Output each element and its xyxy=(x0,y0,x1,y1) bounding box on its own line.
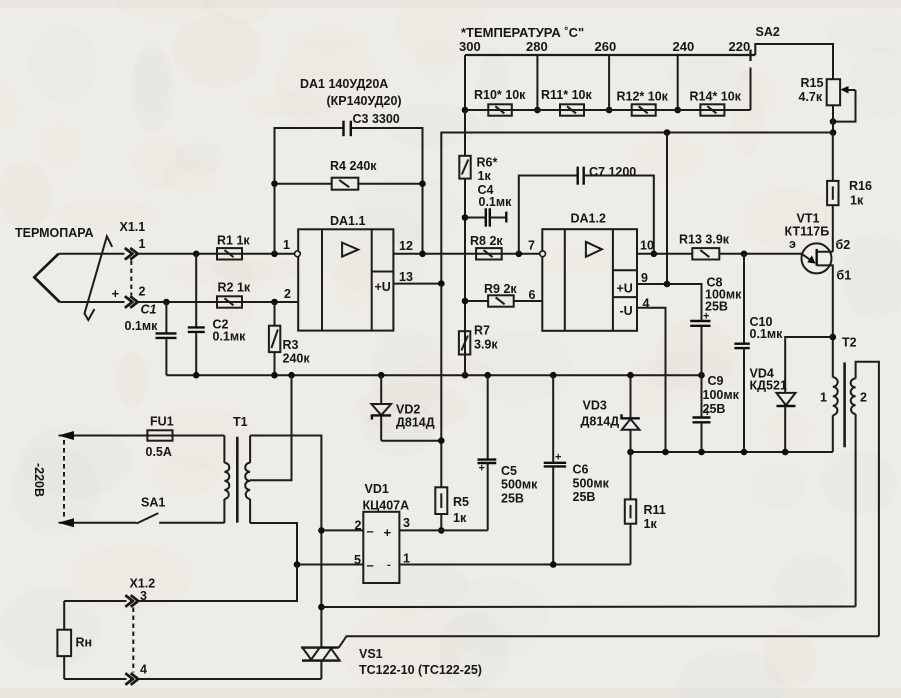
X1.1 dashed link xyxy=(130,261,132,296)
capacitor C7 xyxy=(519,176,578,254)
node bus VD2 xyxy=(378,372,385,379)
X1.1 pin1 chevrons xyxy=(125,248,133,260)
svg-text:КД521: КД521 xyxy=(750,379,787,393)
svg-text:T2: T2 xyxy=(842,336,857,350)
wire R15 bottom lead xyxy=(832,105,834,132)
svg-text:+U: +U xyxy=(375,280,391,294)
wire pin1 line to DA1.1 xyxy=(137,253,295,255)
wire VS1 gate line to T2 xyxy=(339,636,879,647)
svg-text:280: 280 xyxy=(526,39,548,54)
node -U C9 xyxy=(698,449,705,456)
tap 280 xyxy=(536,55,538,110)
node C10 top xyxy=(741,251,748,258)
svg-text:6: 6 xyxy=(529,288,536,302)
transformer T2 winding 2 xyxy=(851,379,856,415)
svg-text:4: 4 xyxy=(140,663,147,677)
DA1.2 pin7 inversion circle xyxy=(540,251,546,257)
svg-text:R6*: R6* xyxy=(477,156,498,170)
temperature scale line xyxy=(465,54,755,56)
svg-text:R1 1к: R1 1к xyxy=(217,234,250,248)
resistor R1 xyxy=(217,248,242,259)
svg-text:10: 10 xyxy=(640,239,654,253)
node -U VD3 xyxy=(627,449,634,456)
svg-text:1к: 1к xyxy=(644,517,658,531)
node bus R7 xyxy=(462,372,469,379)
diode VD3 (zener) xyxy=(630,375,632,418)
svg-text:-U: -U xyxy=(620,304,633,318)
svg-text:0.1мк: 0.1мк xyxy=(125,319,159,333)
node VD1 pin2 tie xyxy=(318,527,325,534)
DA1.1 pin12 wire / signal line to DA1.2 pin7 xyxy=(393,253,540,255)
svg-text:+U: +U xyxy=(617,282,633,296)
svg-text:100мк: 100мк xyxy=(703,388,740,402)
DA1.2 pin10 wire xyxy=(637,253,692,255)
T1 primary xyxy=(223,436,225,463)
svg-text:–: – xyxy=(367,558,374,573)
transformer T2 winding 1 xyxy=(832,415,834,452)
X1.1 pin2 chevrons xyxy=(125,296,133,308)
node -U pin4 xyxy=(662,449,669,456)
svg-text:C9: C9 xyxy=(708,374,724,388)
node R5 bottom xyxy=(438,527,445,534)
wire pin2 line to DA1.1 xyxy=(137,301,299,303)
svg-text:240к: 240к xyxy=(283,352,311,366)
node pin7 C7 xyxy=(516,251,523,258)
svg-text:КЦ407А: КЦ407А xyxy=(363,499,410,513)
svg-text:Т1: Т1 xyxy=(233,415,248,429)
svg-text:DA1.2: DA1.2 xyxy=(571,212,606,226)
svg-text:DA1 140УД20А: DA1 140УД20А xyxy=(300,77,388,91)
svg-text:R4 240к: R4 240к xyxy=(330,159,377,173)
svg-text:R16: R16 xyxy=(849,179,872,193)
svg-text:7: 7 xyxy=(528,239,535,253)
resistor R16 xyxy=(832,133,834,181)
wire load line pin4 xyxy=(64,678,126,680)
svg-text:С3 3300: С3 3300 xyxy=(353,112,400,126)
svg-text:260: 260 xyxy=(595,39,617,54)
node VD2 to +U vertical xyxy=(438,437,445,444)
transformer T2 core xyxy=(843,362,846,447)
X1.2 pin4 chevrons xyxy=(125,673,133,685)
DA1.2 pin4 wire xyxy=(637,308,666,452)
svg-text:–: – xyxy=(367,524,374,539)
svg-text:25В: 25В xyxy=(703,402,726,416)
wire pin2 line left xyxy=(60,301,125,303)
capacitor C9 xyxy=(693,416,711,418)
svg-text:X1.1: X1.1 xyxy=(120,220,146,234)
svg-text:R5: R5 xyxy=(453,495,469,509)
resistor R11 xyxy=(560,104,584,115)
X1.2 pin3 chevrons xyxy=(125,595,133,607)
wire +U vertical (rail to VD1 plus) xyxy=(440,284,442,488)
capacitor C1 xyxy=(165,302,167,333)
svg-text:1: 1 xyxy=(139,237,146,251)
svg-text:+: + xyxy=(112,286,120,301)
resistor R13 xyxy=(692,248,719,259)
svg-text:C6: C6 xyxy=(573,463,589,477)
diode VD4 xyxy=(785,337,833,393)
svg-text:4.7к: 4.7к xyxy=(799,90,823,104)
svg-text:25В: 25В xyxy=(573,490,596,504)
capacitor C4 xyxy=(465,217,486,219)
svg-text:9: 9 xyxy=(641,271,648,285)
node -U VD4 xyxy=(782,449,789,456)
wire VD1 pin5 xyxy=(297,564,363,566)
svg-text:Д814Д: Д814Д xyxy=(581,415,620,429)
DA1.2 pin9 wire xyxy=(637,284,702,321)
wire minus-U horizontal xyxy=(631,451,833,453)
node C1 on pin2 wire xyxy=(163,299,170,306)
svg-text:+: + xyxy=(384,525,392,540)
resistor R10 xyxy=(488,104,512,115)
svg-text:С7 1200: С7 1200 xyxy=(589,165,636,179)
wire VT1 b1 down to T2 xyxy=(832,337,834,377)
resistor R11 xyxy=(625,499,636,523)
node C4 on R6 vertical xyxy=(462,214,469,221)
node pin10 C7 xyxy=(651,251,658,258)
svg-text:1: 1 xyxy=(820,391,827,405)
svg-text:ТЕРМОПАРА: ТЕРМОПАРА xyxy=(15,226,94,240)
node bus C8C9 xyxy=(698,372,705,379)
resistor R7 xyxy=(459,331,470,354)
wire VD1 pin2 xyxy=(321,529,363,531)
wire VD1 pin1 to C6 and R11 xyxy=(399,564,630,566)
node bus VD3 xyxy=(627,372,634,379)
svg-text:R2 1к: R2 1к xyxy=(218,281,251,295)
wire VD1 pin3 to R5 and C5 xyxy=(399,529,487,531)
tap 260 xyxy=(608,55,610,110)
svg-text:SA1: SA1 xyxy=(141,496,165,510)
svg-text:2: 2 xyxy=(139,285,146,299)
svg-text:3.9к: 3.9к xyxy=(474,338,498,352)
svg-text:3: 3 xyxy=(403,516,410,530)
svg-text:1к: 1к xyxy=(478,169,492,183)
svg-text:0.5А: 0.5А xyxy=(146,445,172,459)
DA1.1 pin1 inversion circle xyxy=(295,251,301,257)
svg-text:R8 2к: R8 2к xyxy=(470,234,503,248)
dashed 220V link xyxy=(63,440,65,519)
wire R13 to VT1 emitter xyxy=(719,253,802,255)
svg-text:ТС122-10 (ТС122-25): ТС122-10 (ТС122-25) xyxy=(359,663,482,677)
svg-text:Д814Д: Д814Д xyxy=(396,416,435,430)
node pin9 +U xyxy=(664,281,671,288)
node bus T1 tap xyxy=(288,372,295,379)
svg-text:R13 3.9к: R13 3.9к xyxy=(679,233,730,247)
svg-text:500мк: 500мк xyxy=(501,478,538,492)
capacitor C2 xyxy=(195,254,197,327)
capacitor C6 xyxy=(552,375,554,463)
node gate return tie xyxy=(318,604,325,611)
wire resistor chain xyxy=(465,109,751,111)
wire load line pin3 xyxy=(64,600,126,602)
node bus C2 xyxy=(193,372,200,379)
svg-text:VD3: VD3 xyxy=(583,399,607,413)
node C2 on pin1 wire xyxy=(193,251,200,258)
svg-text:VT1: VT1 xyxy=(797,212,820,226)
svg-text:220: 220 xyxy=(729,39,751,54)
svg-text:DA1.1: DA1.1 xyxy=(330,214,365,228)
svg-text:2: 2 xyxy=(284,287,291,301)
wire +U to pin9 vertical xyxy=(666,133,668,285)
resistor R14 xyxy=(700,104,724,115)
triac VS1 xyxy=(301,646,339,648)
svg-text:300: 300 xyxy=(459,39,481,54)
node pin13 on +U vertical xyxy=(438,280,445,287)
svg-text:13: 13 xyxy=(399,270,413,284)
resistor R9 xyxy=(465,300,488,302)
resistor R12 xyxy=(632,104,656,115)
arrow 220V top xyxy=(58,431,74,440)
svg-text:+: + xyxy=(479,463,485,475)
resistor R2 xyxy=(217,296,242,307)
svg-text:R11* 10к: R11* 10к xyxy=(541,88,592,102)
wire T1 secondary bottom lead xyxy=(250,523,297,601)
resistor R3 xyxy=(274,302,276,326)
tap 300 xyxy=(464,55,466,110)
svg-text:э: э xyxy=(789,237,796,251)
node C6 bottom xyxy=(550,561,557,568)
capacitor C10 xyxy=(743,254,745,344)
svg-text:SA2: SA2 xyxy=(756,25,780,39)
capacitor C8 xyxy=(690,320,710,322)
svg-text:С1: С1 xyxy=(141,303,157,317)
resistor R5 xyxy=(435,487,447,514)
svg-text:R3: R3 xyxy=(283,338,299,352)
svg-text:Rн: Rн xyxy=(76,636,93,650)
tap 240 xyxy=(677,55,679,110)
node bus R3 xyxy=(271,372,278,379)
tap 220 xyxy=(749,50,751,62)
diode VD2 (zener) xyxy=(380,375,382,404)
node +U rail to DA1.2 pin9 branch xyxy=(664,129,671,136)
svg-text:12: 12 xyxy=(399,239,413,253)
svg-text:2: 2 xyxy=(860,391,867,405)
svg-text:1: 1 xyxy=(283,238,290,252)
svg-text:FU1: FU1 xyxy=(150,415,174,429)
node pin12 feedback xyxy=(419,251,426,258)
node bus C6 xyxy=(550,372,557,379)
node C3R4 on pin1 wire xyxy=(271,251,278,258)
svg-text:VS1: VS1 xyxy=(359,647,383,661)
svg-text:-220В: -220В xyxy=(32,463,46,497)
node R15 on +U rail xyxy=(830,129,837,136)
svg-text:VD2: VD2 xyxy=(396,403,420,417)
node bus C5 xyxy=(484,372,491,379)
resistor Rn (load) xyxy=(63,601,65,630)
node X1.2 pin3 tie xyxy=(294,561,301,568)
svg-text:R9 2к: R9 2к xyxy=(484,282,517,296)
capacitor C3 xyxy=(275,128,344,254)
svg-text:25В: 25В xyxy=(705,300,728,314)
resistor R8 xyxy=(476,248,502,259)
wire pin1 line left xyxy=(59,253,125,255)
wire +U top rail xyxy=(441,133,833,284)
fuse FU1 xyxy=(59,435,225,437)
svg-text:-: - xyxy=(387,559,391,571)
node R9 on R6 vertical xyxy=(462,298,469,305)
svg-text:500мк: 500мк xyxy=(573,477,610,491)
potentiometer R15 xyxy=(827,79,840,105)
node chain-260 xyxy=(606,107,613,114)
svg-text:*ТЕМПЕРАТУРА ˚С": *ТЕМПЕРАТУРА ˚С" xyxy=(461,25,584,40)
svg-text:1: 1 xyxy=(403,552,410,566)
node R3 on pin2 wire xyxy=(271,299,278,306)
node chain-280 xyxy=(534,107,541,114)
svg-text:VD1: VD1 xyxy=(365,482,389,496)
wire common bus xyxy=(166,374,701,376)
T1 secondary xyxy=(249,436,251,463)
svg-text:0.1мк: 0.1мк xyxy=(750,327,784,341)
svg-text:1к: 1к xyxy=(850,194,864,208)
svg-text:R15: R15 xyxy=(801,76,824,90)
svg-text:4: 4 xyxy=(643,297,650,311)
svg-text:0.1мк: 0.1мк xyxy=(213,330,247,344)
svg-text:R12* 10к: R12* 10к xyxy=(617,90,669,104)
node R15 bottom wiper tie xyxy=(830,118,837,125)
node chain-240 xyxy=(674,107,681,114)
svg-text:+: + xyxy=(555,452,561,464)
DA1.1 pin13 wire xyxy=(393,283,441,285)
resistor R6 xyxy=(464,110,466,156)
arrow 220V bottom xyxy=(58,518,74,527)
svg-text:1к: 1к xyxy=(453,511,467,525)
X1.2 dashed link xyxy=(132,608,134,673)
node chain-300 xyxy=(462,107,469,114)
R15 wiper arrow xyxy=(847,89,856,91)
T1 core xyxy=(236,437,239,523)
resistor R4 xyxy=(332,178,359,190)
svg-text:(КР140УД20): (КР140УД20) xyxy=(327,94,402,108)
svg-text:0.1мк: 0.1мк xyxy=(479,195,513,209)
wire T1 center tap xyxy=(250,375,291,480)
svg-text:R11: R11 xyxy=(644,503,666,517)
svg-text:R7: R7 xyxy=(474,324,490,338)
svg-text:б2: б2 xyxy=(836,238,851,252)
svg-text:240: 240 xyxy=(673,39,695,54)
svg-text:R14* 10к: R14* 10к xyxy=(690,90,742,104)
wire T1 secondary top lead xyxy=(250,436,321,648)
svg-text:25В: 25В xyxy=(501,492,524,506)
svg-text:б1: б1 xyxy=(837,269,852,283)
wire gate return line to T2 xyxy=(321,606,855,609)
node T2 top xyxy=(830,334,837,341)
node R4 left xyxy=(271,180,278,187)
svg-text:R10* 10к: R10* 10к xyxy=(474,88,526,102)
node R4 right xyxy=(419,180,426,187)
svg-text:C5: C5 xyxy=(501,464,517,478)
node -U C10 xyxy=(741,449,748,456)
capacitor C5 xyxy=(487,375,489,459)
